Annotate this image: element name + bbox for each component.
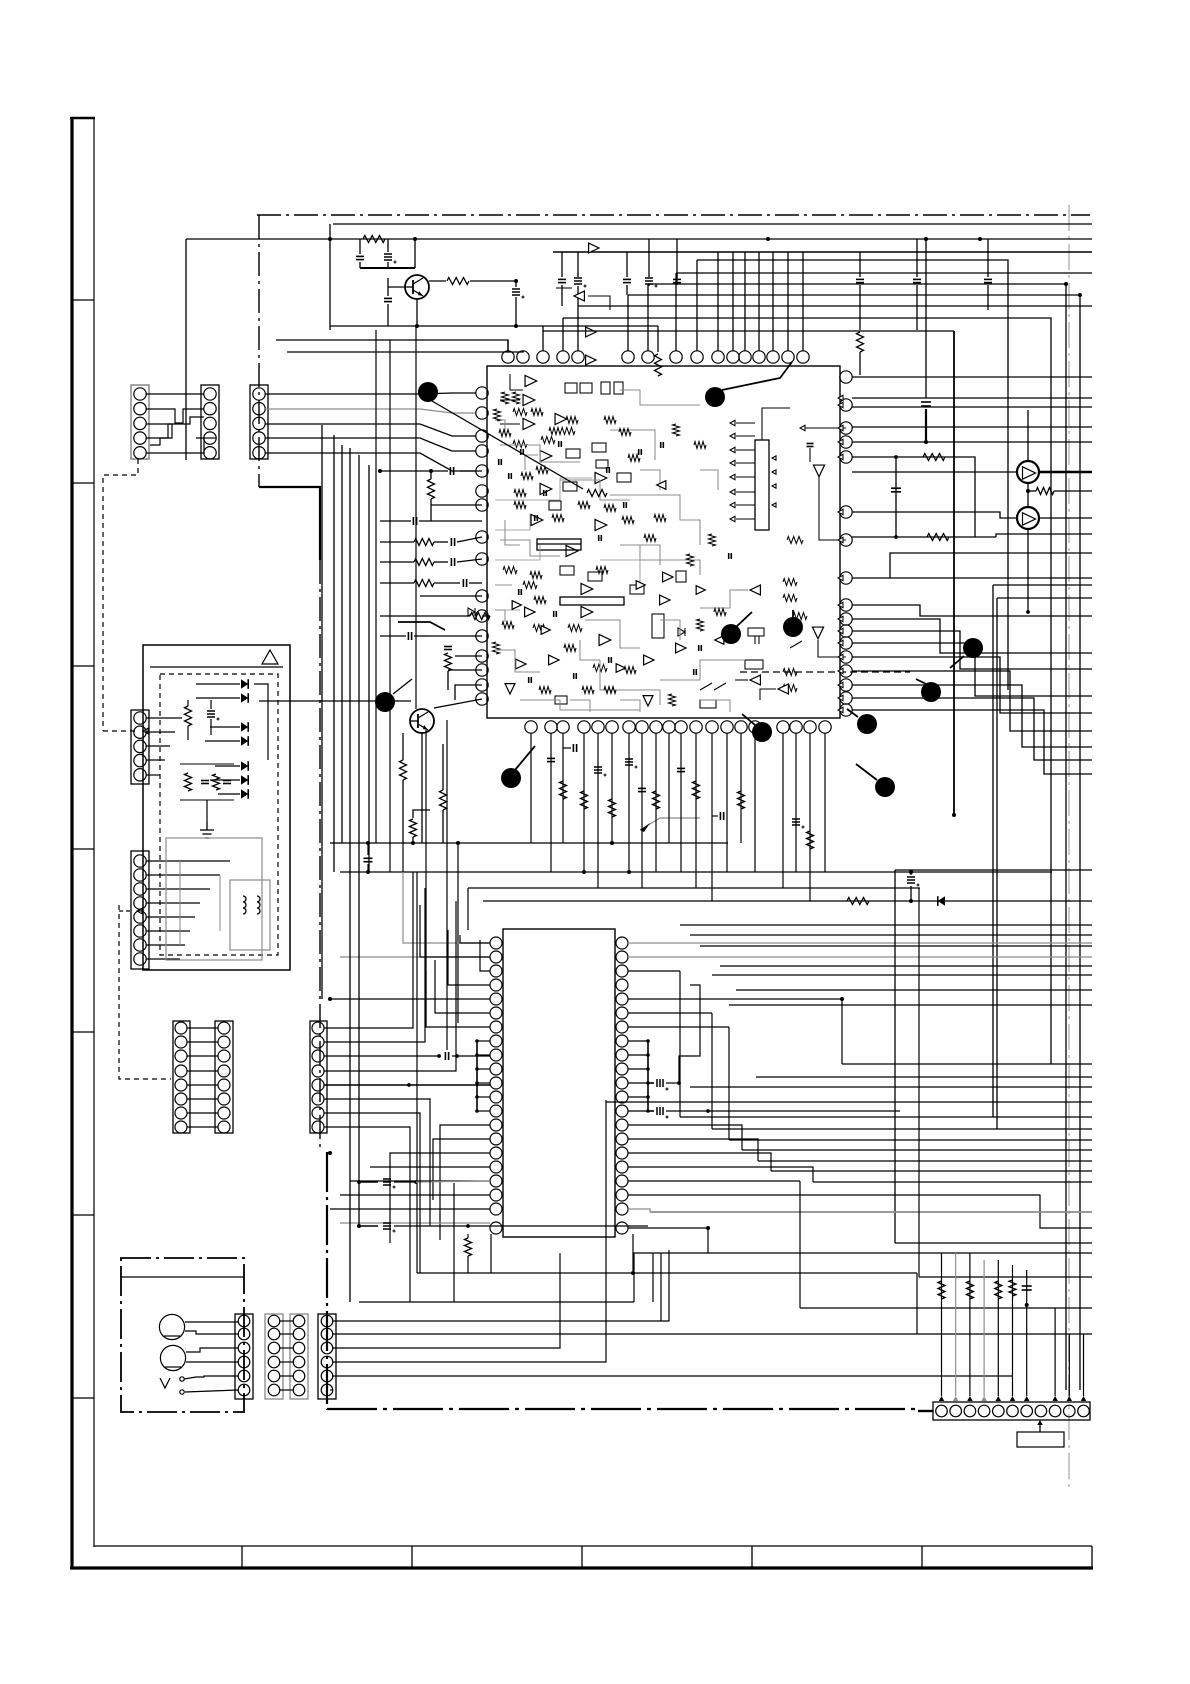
IC101 gray net (700, 590, 748, 608)
connector CN103 pin 4 (253, 432, 265, 444)
CN209 pin 3 (321, 1342, 333, 1354)
sheet frame thick left border (70, 117, 73, 1569)
wire IC1 bottom pin drop x584 (583, 733, 585, 872)
CN207 pin 3 (268, 1342, 280, 1354)
connector CN202 body (131, 851, 149, 969)
CN205 wire 3 (324, 1055, 441, 1057)
IC101 resistor (513, 441, 527, 448)
IC201 right pin y971 (616, 965, 628, 977)
callout leader (515, 746, 535, 770)
IC101 wire net (735, 679, 748, 681)
IC101 resistor (783, 669, 797, 676)
IC101 cap (534, 515, 536, 521)
resistor R208 (1009, 1280, 1016, 1296)
IC101 left pin y537 (476, 531, 488, 543)
IC101 bottom pin x669 (663, 721, 675, 733)
resistor R110 (470, 613, 490, 620)
wire bold jog (360, 267, 415, 269)
IC101 op-amp (549, 655, 559, 665)
IC101 resistor (536, 467, 548, 474)
inductor L202 (257, 896, 260, 914)
IC101 wire (588, 296, 610, 310)
wire rail y326 to resistor (657, 326, 659, 352)
IC101 gray net (640, 545, 660, 565)
callout dot 1 (418, 382, 438, 402)
wire v x390 (389, 340, 391, 872)
wire (430, 471, 432, 479)
IC101 resistor (566, 417, 578, 424)
wire IC1 bottom pin drop x696 (695, 733, 697, 888)
wire y1253 (633, 1252, 1092, 1254)
wire amp out 2 (1039, 517, 1092, 519)
wire CN101-CN102 1 (146, 393, 204, 395)
IC101 triangle amp (581, 583, 593, 594)
IC101 top pin x523 (517, 351, 529, 363)
IC201 left pin y1209 (490, 1203, 502, 1215)
IC101 op-amp (750, 675, 760, 685)
gray net 2 (340, 956, 489, 958)
IC101 bar arrow (736, 449, 755, 451)
IC101 box (566, 449, 580, 458)
CN207-CN208 tie 4 (280, 1361, 293, 1363)
capacitor C118 (462, 579, 464, 587)
wire IC2 l12 (350, 1180, 490, 1182)
CN207-CN208 tie 3 (280, 1347, 293, 1349)
IC101 amp (589, 243, 599, 253)
wire IC2 r5 (628, 1012, 712, 1014)
wire y331 (543, 330, 954, 332)
IC101 resistor (628, 455, 640, 462)
wire IC1 bottom pin drop x755 (754, 733, 756, 872)
IC101 op-amp (586, 355, 596, 365)
wire IC1 top pin feed x628 (627, 295, 629, 351)
frame tick bottom 4 (751, 1546, 753, 1568)
IC201 right pin y1139 (616, 1133, 628, 1145)
wire y843 left stub (330, 842, 340, 844)
IC101 resistor (514, 490, 526, 497)
wire pack y1102 (606, 1101, 1092, 1103)
CN203-CN204 tie 3 (187, 1055, 218, 1057)
electrolytic C202 (656, 1107, 658, 1115)
IC101 box (563, 482, 577, 491)
wire bundle v x359 (358, 455, 360, 1226)
capacitor C110 (856, 278, 864, 280)
IC101 op-amp (660, 595, 670, 605)
IC101 op-amp (663, 572, 673, 582)
IC101 gray net (505, 520, 520, 545)
wire pack y1087 (690, 1086, 1092, 1088)
wire v x417 (416, 872, 418, 1273)
wire drop x330 (329, 224, 331, 330)
IC201 right tie (628, 1110, 648, 1112)
wire amp in 1 (852, 471, 1017, 473)
wire stub (359, 1225, 378, 1227)
electrolytic C102 (384, 253, 392, 255)
IC101 wire (818, 640, 846, 657)
IC101 right pin y710 (840, 704, 852, 716)
connector CN202 pin 1 (134, 855, 146, 867)
gray net 1 (403, 872, 489, 943)
IC101 cap (508, 473, 510, 479)
IC101 resistor (513, 392, 520, 404)
capacitor C128 (719, 812, 721, 820)
wire y670 (448, 669, 482, 671)
wire IC2 l7 (426, 970, 490, 1027)
wire right y710 (852, 710, 1092, 774)
IC101 bottom pin x551 (545, 721, 557, 733)
CN209 wire 2 (333, 1333, 917, 1335)
wire Q101 emitter (416, 299, 418, 326)
wire IC1 top pin feed x676 (675, 273, 677, 351)
frame tick left 2 (72, 482, 94, 484)
IC101 bottom pin x755 (749, 721, 761, 733)
frame tick bottom 1 (241, 1546, 243, 1568)
bus y843 (340, 842, 728, 844)
capacitor C120 (444, 646, 452, 648)
speaker box border (121, 1258, 244, 1412)
capacitor C111 (913, 278, 921, 280)
wire IC1 top pin feed x788 (787, 252, 789, 351)
electrolytic C106 (574, 277, 582, 279)
wire IC1 bottom pin drop x656 (655, 733, 657, 872)
wire pack y1129 (712, 1128, 1092, 1130)
wire v x426 (425, 730, 427, 1027)
CN205 pin 6 (312, 1093, 324, 1105)
IC101 resistor (783, 595, 797, 602)
CN207 pin 4 (268, 1356, 280, 1368)
wire pack y1150 (742, 1149, 1092, 1151)
wire y295 (628, 294, 1080, 296)
CN210 feed wire x941.5 (941, 1253, 943, 1396)
diode D202 (241, 693, 248, 703)
IC101 bottom pin x825 (819, 721, 831, 733)
power block inner top line (150, 666, 283, 668)
wire bundle v x334 (333, 435, 335, 872)
IC101 right pin y442 (840, 436, 852, 448)
IC101 op-amp (595, 519, 607, 530)
CN203 pin 7 (175, 1107, 187, 1119)
junction (328, 997, 332, 1001)
CN203-CN204 tie 8 (187, 1126, 218, 1128)
wire amp top feed (1027, 410, 1029, 461)
junction (924, 237, 928, 241)
resistor R104 (857, 332, 864, 352)
CN205 wire 8 (324, 1127, 410, 1302)
bus y888 (468, 887, 920, 889)
IC101 top pin x759 (753, 351, 765, 363)
IC101 resistor (534, 597, 546, 604)
IC101 amp (812, 627, 823, 639)
IC201 right pin y957 (616, 951, 628, 963)
IC101 resistor (521, 473, 533, 480)
wire v x926 (925, 239, 927, 398)
IC101 right pin y631 (840, 625, 852, 637)
capacitor C107 (623, 278, 631, 280)
IC101 bar arrow (736, 504, 755, 506)
junction (357, 1224, 361, 1228)
wire IC1 bottom pin drop x783 (782, 733, 784, 888)
wire CN103 to IC1 pin 2 (265, 409, 476, 413)
callout dot 5 (921, 682, 941, 702)
IC101 box (565, 383, 577, 393)
wire pack y1140 (729, 1139, 1092, 1141)
IC101 resistor (787, 537, 803, 544)
IC101 gray net (520, 700, 640, 710)
electrolytic C129 (792, 818, 800, 820)
wire y1277 (919, 1276, 1092, 1278)
IC101 box (601, 382, 610, 394)
IC201 right pin y1097 (616, 1091, 628, 1103)
CN203 pin 8 (175, 1121, 187, 1133)
IC101 resistor (564, 645, 576, 652)
wire IC1 top pin feed x523 (522, 351, 524, 352)
wire v x447 (446, 720, 448, 1050)
resistor R115 (847, 898, 869, 905)
IC101 gray net (525, 455, 538, 470)
dashed net (740, 671, 910, 673)
resistor R126 (410, 819, 417, 837)
IC101 op-amp (505, 684, 515, 694)
wire IC1 top pin feed x648 (647, 284, 649, 351)
IC201 left bracket (476, 1041, 478, 1111)
IC101 wire net (735, 589, 748, 591)
connector CN201 pin 2 (134, 726, 146, 738)
wire v x1066 (1065, 284, 1067, 1390)
resistor R205 (938, 1281, 945, 1299)
callout leader (847, 709, 858, 717)
IC201 left pin y985 (490, 979, 502, 991)
connector CN209 body (318, 1314, 336, 1399)
IC101 cap (558, 441, 560, 447)
junction (582, 870, 586, 874)
wire v x842 (841, 999, 843, 1064)
pin arrow (838, 575, 843, 581)
IC101 top pin x508 (502, 351, 514, 363)
IC101 bar arrow (736, 462, 755, 464)
speaker SP2 (160, 1345, 185, 1370)
IC101 left pin y451 (476, 445, 488, 457)
capacitor C105 (558, 278, 566, 280)
IC101 left pin y616 (476, 610, 488, 622)
CN210 feed wire x998.3 (997, 1260, 999, 1396)
resistor R107 (414, 539, 434, 546)
IC101 gray net (620, 390, 700, 405)
pin arrow (838, 454, 843, 460)
IC101 wire (500, 399, 520, 401)
IC IC101 body (487, 366, 840, 718)
IC101 top pin x697 (691, 351, 703, 363)
IC101 resistor (552, 515, 564, 522)
IC101 top pin x628 (622, 351, 634, 363)
wire y1302 (359, 1301, 634, 1303)
board boundary bold vertical (326, 1152, 328, 1410)
wire IC1 top pin feed x733 (732, 252, 734, 351)
IC201 right pin y1209 (616, 1203, 628, 1215)
IC101 resistor (709, 534, 716, 546)
wire IC1 top pin feed x508 (507, 340, 509, 351)
IC101 cap (660, 442, 662, 448)
IC101 top pin x733 (727, 351, 739, 363)
IC101 amp (813, 465, 824, 477)
IC101 gray net (495, 584, 512, 586)
IC101 right pin y643 (840, 637, 852, 649)
callout dot 6 (963, 638, 983, 658)
IC101 gray net (620, 545, 700, 575)
junction (413, 237, 417, 241)
IC101 top pin x803 (797, 351, 809, 363)
IC101 resistor (783, 685, 797, 692)
IC101 op-amp (574, 291, 584, 301)
wire IC2 l2 (420, 905, 490, 957)
IC201 right tie (628, 1040, 648, 1042)
junction (909, 899, 913, 903)
IC101 resistor (494, 409, 501, 421)
IC201 right tie (628, 1054, 648, 1056)
IC101 switch (790, 641, 802, 648)
wire pack y1117 (680, 1116, 1092, 1118)
IC101 box (549, 501, 561, 510)
wire y284 (648, 283, 1066, 285)
resistor R201 (185, 706, 192, 726)
IC101 resistor (624, 667, 636, 674)
wire CN101-CN102 4 (146, 417, 204, 438)
CN203-CN204 tie 7 (187, 1112, 218, 1114)
IC101 resistor (619, 429, 631, 436)
resistor R109 (414, 580, 434, 587)
junction (411, 841, 415, 845)
IC101 cap (528, 677, 530, 683)
IC101 bottom pin x810 (804, 721, 816, 733)
IC101 resistor (694, 442, 706, 449)
wire IC1 top pin feed x773 (772, 252, 774, 351)
wire IC1 top pin feed x759 (758, 252, 760, 351)
IC101 gray net (495, 420, 505, 435)
connector CN103 pin 2 (253, 403, 265, 415)
IC101 box (630, 585, 644, 594)
capacitor C114 (449, 467, 451, 475)
IC101 bottom pin x696 (690, 721, 702, 733)
callout leader (736, 612, 752, 627)
junction (429, 469, 433, 473)
IC101 box (560, 566, 574, 575)
resistor R123 (1036, 488, 1054, 495)
IC101 resistor (669, 694, 676, 706)
wire IC1 bottom pin drop x563 (562, 733, 564, 843)
wire IC1 bottom pin drop x642 (641, 733, 643, 888)
callout dot 3 (721, 624, 741, 644)
wire IC1 top pin feed x697 (696, 260, 698, 351)
IC101 op-amp (586, 327, 596, 337)
wire y1273 (417, 1272, 917, 1274)
connector CN101 pin 1 (134, 388, 146, 400)
transistor Q102 (410, 709, 434, 733)
IC101 top pin x773 (767, 351, 779, 363)
IC101 gray net (585, 620, 640, 648)
IC101 resistor (549, 428, 561, 435)
CN208 pin 5 (293, 1370, 305, 1382)
capacitor C113 (921, 401, 931, 403)
IC201 right pin y1153 (616, 1147, 628, 1159)
IC101 amp (696, 586, 705, 595)
IC101 bar arrow right (772, 503, 776, 507)
junction (366, 870, 370, 874)
wire right y427 (852, 426, 1092, 428)
wire IC2 l8 (440, 1125, 490, 1240)
callout leader (722, 362, 792, 390)
CN205 wire 5 (324, 1084, 490, 1086)
bus y901 (483, 900, 1092, 902)
frame tick left 1 (72, 299, 94, 301)
IC101 right pin y457 (840, 451, 852, 463)
connector CN201 pin 4 (134, 754, 146, 766)
IC101 cap (608, 657, 610, 663)
IC101 box (614, 382, 623, 394)
IC101 resistor (697, 619, 704, 631)
IC101 top pin x676 (670, 351, 682, 363)
wire v x454 (453, 1183, 455, 1302)
IC101 right pin y428 (840, 422, 852, 434)
frame tick left 5 (72, 1031, 94, 1033)
IC201 right tie (628, 1096, 648, 1098)
IC101 cap (498, 459, 500, 465)
resistor R103 (655, 354, 662, 376)
connector CN206 body (235, 1314, 253, 1399)
CN204 pin 4 (218, 1065, 230, 1077)
capacitor C112 (984, 278, 992, 280)
CN206 pin 3 (238, 1342, 250, 1354)
CN205 pin 7 (312, 1107, 324, 1119)
transistor Q101 (405, 275, 429, 299)
wire v x376 (375, 330, 377, 843)
CN208 pin 1 (293, 1315, 305, 1327)
IC101 right pin y405 (840, 399, 852, 411)
wire stair 2 (287, 351, 523, 352)
IC201 left pin y1083 (490, 1077, 502, 1089)
wire step g1 (660, 1253, 662, 1321)
CN205 pin 8 (312, 1121, 324, 1133)
wire v x919 (918, 888, 920, 1277)
resistor R118 (609, 799, 616, 817)
pin arrow (838, 439, 843, 445)
IC101 resistor (673, 424, 680, 436)
wire right y540 (996, 534, 1092, 537)
IC101 op-amp (595, 472, 607, 483)
junction (631, 1271, 635, 1275)
pin arrow (838, 509, 843, 515)
capacitor C207 (201, 780, 209, 782)
resistor R122 (807, 831, 814, 849)
IC201 left pin y1111 (490, 1105, 502, 1117)
IC201 left pin y1181 (490, 1175, 502, 1187)
resistor R112 (400, 760, 407, 780)
wire Q102 (259, 700, 411, 702)
CN210 bold lead (918, 1410, 933, 1412)
electrolytic C201 (656, 1079, 658, 1087)
wire y260 corner (697, 260, 1008, 690)
IC101 op-amp (676, 643, 686, 653)
IC101 box (592, 443, 606, 452)
wire right y685 (852, 685, 1092, 747)
junction (627, 870, 631, 874)
wire v x895 (894, 870, 896, 1243)
wire v x653 (652, 1253, 654, 1302)
CN206 pin 4 (238, 1356, 250, 1368)
electrolytic C121 (907, 876, 915, 878)
CN210 pin 8 (1035, 1405, 1047, 1417)
wire IC1 bottom pin drop x551 (550, 733, 552, 872)
wire right y398 (852, 397, 1092, 399)
IC101 right pin y512 (840, 506, 852, 518)
